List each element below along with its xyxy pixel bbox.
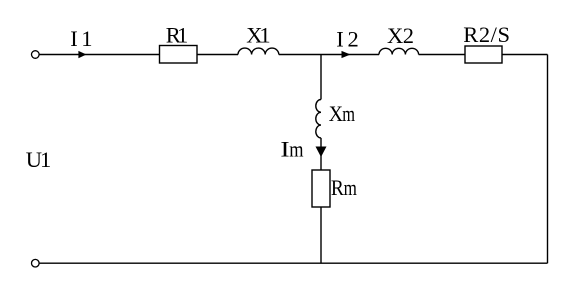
svg-text:U1: U1 — [26, 147, 52, 172]
resistor R1 — [160, 46, 198, 64]
wire Rm to bottom — [320, 207, 322, 263]
inductor X2 — [379, 48, 419, 54]
svg-text:m: m — [344, 176, 358, 201]
wire top: terminal to R1 — [39, 54, 159, 56]
svg-text:I1: I1 — [70, 26, 92, 51]
svg-text:I2: I2 — [336, 27, 359, 52]
label Xm — [329, 101, 355, 127]
svg-text:X2: X2 — [387, 23, 414, 48]
svg-text:X1: X1 — [246, 22, 270, 47]
resistor R2/S — [465, 46, 502, 63]
arrow Im (down) — [316, 147, 327, 158]
svg-text:R: R — [331, 175, 344, 201]
svg-text:R2/S: R2/S — [463, 22, 510, 47]
wire X2 to R2/S — [419, 54, 465, 56]
label Rm — [331, 175, 357, 201]
inductor Xm — [316, 100, 321, 138]
wire R2/S to right corner — [502, 54, 548, 56]
terminal circle top-left — [32, 51, 40, 59]
arrow I1 — [78, 51, 86, 58]
wire X1 to X2 (through node) — [279, 54, 379, 56]
wire bottom — [39, 262, 547, 264]
label Im — [280, 138, 303, 162]
wire node to Xm — [320, 55, 322, 100]
inductor X1 — [238, 48, 279, 54]
svg-text:R1: R1 — [166, 23, 189, 48]
terminal circle bottom-left — [32, 259, 40, 267]
arrow I2 — [342, 51, 351, 58]
resistor Rm — [312, 170, 330, 207]
wire right vertical — [547, 55, 549, 264]
wire Xm to Rm — [320, 138, 322, 170]
svg-text:I: I — [280, 138, 289, 162]
svg-text:m: m — [342, 101, 355, 126]
wire R1 to X1 — [197, 54, 238, 56]
svg-text:X: X — [329, 101, 343, 127]
svg-text:m: m — [289, 138, 303, 162]
